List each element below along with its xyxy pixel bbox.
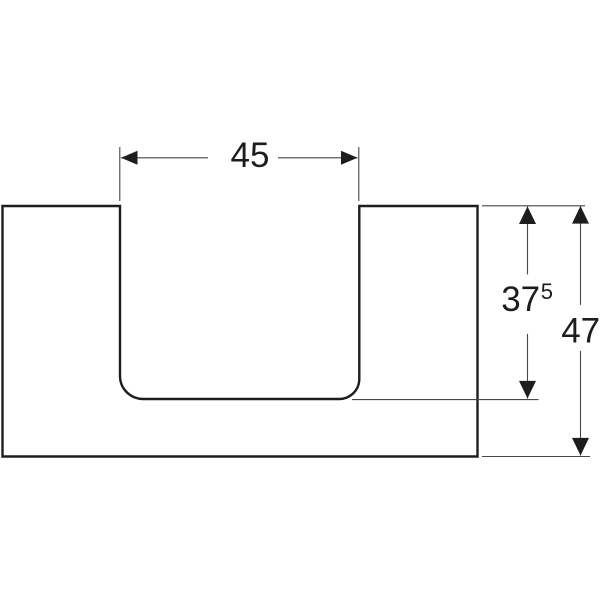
dimension line 47 upper segment: [580, 206, 582, 305]
dimension line 45 right segment: [278, 157, 358, 159]
extension line top right (panel top edge): [482, 205, 585, 207]
extension line cutout bottom: [352, 399, 539, 401]
extension line right of 45 dimension: [358, 147, 360, 201]
dimension line 37.5 lower segment: [527, 334, 529, 399]
dimension line 37.5 upper segment: [527, 206, 529, 274]
arrowhead 47 up: [572, 206, 589, 224]
svg-text:37: 37: [501, 280, 540, 319]
svg-text:47: 47: [561, 311, 600, 350]
arrowhead 37.5 up: [519, 206, 536, 224]
extension line left of 45 dimension: [119, 147, 121, 201]
dimension line 47 lower segment: [580, 351, 582, 456]
dimension line 45 left segment: [121, 157, 208, 159]
arrowhead 45 right: [341, 151, 358, 165]
panel outline with U-shaped cutout: [3, 206, 478, 457]
svg-text:5: 5: [541, 279, 553, 304]
arrowhead 37.5 down: [519, 381, 536, 399]
arrowhead 45 left: [121, 151, 138, 165]
svg-text:45: 45: [231, 136, 270, 175]
arrowhead 47 down: [572, 438, 589, 456]
extension line bottom right (panel bottom edge): [482, 456, 590, 458]
